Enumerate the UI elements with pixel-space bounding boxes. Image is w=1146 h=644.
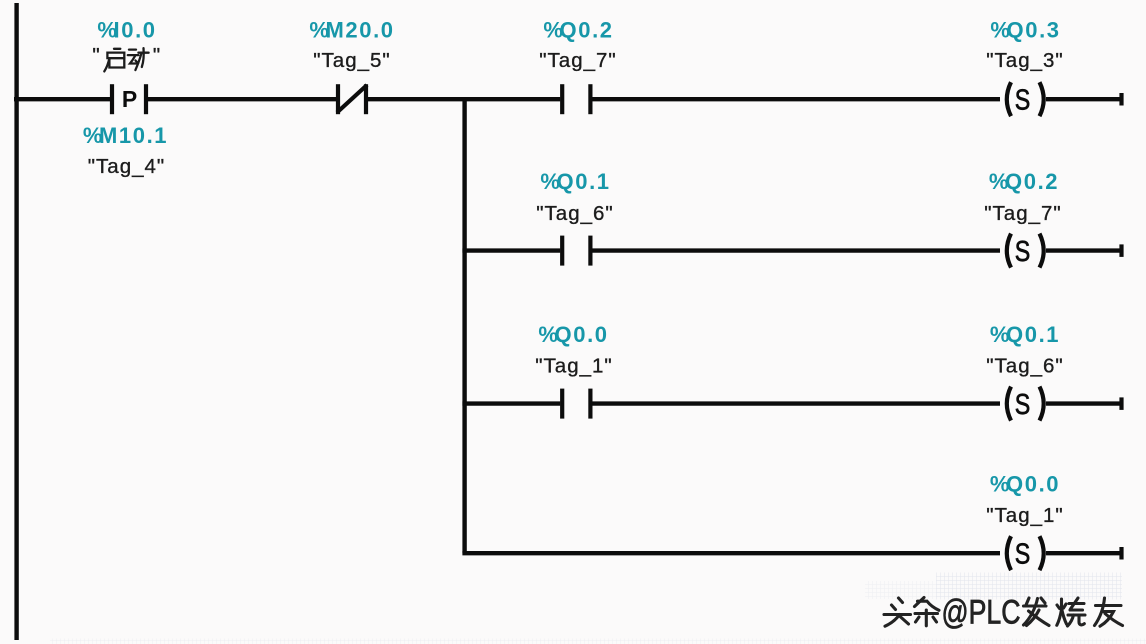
svg-text:"Tag_3": "Tag_3" — [986, 49, 1063, 72]
svg-text:"Tag_4": "Tag_4" — [88, 155, 165, 178]
svg-text:S: S — [1015, 236, 1031, 268]
glyph 发 — [1024, 598, 1050, 626]
watermark text 头条 @PLC发烧友 — [884, 594, 1123, 632]
left power rail — [14, 3, 18, 640]
right rail stub rung2 — [1119, 244, 1123, 257]
wire coil 4 to right stub — [1046, 551, 1123, 555]
right rail stub rung3 — [1119, 397, 1123, 410]
branch vertical wire — [462, 97, 466, 553]
svg-text:%Q0.0: %Q0.0 — [990, 472, 1060, 497]
glyph 友 — [1095, 598, 1123, 626]
glyph 条 — [915, 598, 940, 626]
svg-text:"Tag_5": "Tag_5" — [313, 49, 390, 72]
wire rung1 rail to P contact — [14, 97, 110, 101]
wire NC contact through branch node to NO contact 1 — [368, 97, 560, 101]
svg-text:S: S — [1015, 85, 1031, 117]
NO contact 2 bars — [560, 236, 564, 266]
svg-text:%Q0.1: %Q0.1 — [540, 169, 610, 194]
contact P-trig |P| bars — [110, 84, 114, 114]
bottom pixel strip — [50, 639, 1146, 644]
svg-text:P: P — [122, 86, 137, 112]
wire NO contact 1 to set coil 1 — [593, 97, 1001, 101]
svg-text:%I0.0: %I0.0 — [97, 18, 156, 43]
svg-text:"Tag_1": "Tag_1" — [986, 504, 1063, 527]
svg-text:%Q0.2: %Q0.2 — [543, 18, 613, 43]
wire coil 1 to right stub — [1046, 97, 1123, 101]
set coil 4 (S) — [1007, 536, 1044, 570]
svg-text:@PLC: @PLC — [942, 594, 1021, 632]
svg-text:%Q0.2: %Q0.2 — [989, 169, 1059, 194]
NC contact |/| bars and slash — [336, 84, 340, 114]
set coil 3 (S) — [1007, 387, 1044, 421]
glyph 烧 — [1057, 598, 1085, 626]
svg-text:": " — [153, 44, 161, 67]
set coil 1 (S) — [1007, 82, 1044, 116]
svg-text:%Q0.1: %Q0.1 — [990, 322, 1060, 347]
svg-text:"Tag_6": "Tag_6" — [986, 354, 1063, 377]
right rail stub rung1 — [1119, 93, 1123, 106]
NO contact 1 bars — [560, 84, 564, 114]
glyph 头 — [884, 598, 911, 626]
watermark pixel grid block — [936, 573, 1122, 600]
svg-text:%Q0.0: %Q0.0 — [538, 322, 608, 347]
contact P-trig: tag name "启动" (drawn CJK) — [92, 44, 161, 71]
svg-text:%Q0.3: %Q0.3 — [990, 18, 1060, 43]
svg-text:S: S — [1015, 389, 1031, 421]
svg-text:"Tag_7": "Tag_7" — [984, 202, 1061, 225]
svg-text:S: S — [1015, 539, 1031, 571]
wire NO contact 3 to set coil 3 — [593, 401, 1001, 405]
wire NO contact 2 to set coil 2 — [593, 248, 1001, 252]
glyph 动 — [128, 48, 149, 70]
wire P contact to NC contact — [148, 97, 336, 101]
wire branch to NO contact 3 — [462, 401, 560, 405]
svg-text:%M20.0: %M20.0 — [309, 18, 394, 43]
svg-text:"Tag_1": "Tag_1" — [535, 354, 612, 377]
wire branch to set coil 4 — [462, 551, 1000, 555]
wire coil 3 to right stub — [1046, 401, 1123, 405]
svg-text:%M10.1: %M10.1 — [83, 123, 168, 148]
set coil 2 (S) — [1007, 234, 1044, 268]
svg-text:"Tag_6": "Tag_6" — [536, 202, 613, 225]
wire coil 2 to right stub — [1046, 248, 1123, 252]
right rail stub rung4 — [1119, 547, 1123, 560]
svg-text:": " — [92, 44, 100, 67]
NO contact 3 bars — [560, 389, 564, 419]
svg-text:"Tag_7": "Tag_7" — [539, 49, 616, 72]
glyph 启 — [104, 49, 124, 72]
wire branch to NO contact 2 — [462, 248, 560, 252]
